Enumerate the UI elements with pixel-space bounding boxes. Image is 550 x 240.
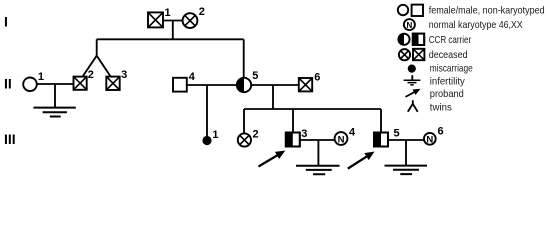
svg-text:III: III — [4, 131, 16, 147]
svg-text:3: 3 — [301, 128, 307, 140]
svg-text:N: N — [338, 134, 345, 145]
svg-text:N: N — [407, 21, 413, 30]
svg-text:5: 5 — [394, 128, 400, 140]
svg-text:2: 2 — [199, 6, 205, 18]
svg-text:twins: twins — [430, 102, 452, 114]
svg-text:4: 4 — [349, 126, 356, 138]
svg-text:II: II — [4, 76, 12, 92]
svg-text:deceased: deceased — [429, 49, 468, 61]
svg-text:1: 1 — [38, 71, 44, 83]
svg-text:1: 1 — [212, 129, 218, 141]
svg-text:2: 2 — [88, 69, 94, 81]
svg-text:1: 1 — [165, 7, 171, 19]
svg-text:female/male, non-karyotyped: female/male, non-karyotyped — [429, 5, 545, 17]
svg-text:3: 3 — [121, 69, 127, 81]
svg-text:CCR carrier: CCR carrier — [429, 34, 472, 46]
svg-text:4: 4 — [189, 71, 196, 83]
svg-text:6: 6 — [438, 126, 444, 138]
svg-text:6: 6 — [314, 72, 320, 84]
svg-text:normal karyotype 46,XX: normal karyotype 46,XX — [429, 19, 523, 31]
svg-text:N: N — [426, 134, 433, 145]
svg-text:2: 2 — [253, 129, 259, 141]
svg-text:miscarriage: miscarriage — [430, 63, 473, 75]
svg-text:5: 5 — [252, 70, 258, 82]
svg-text:proband: proband — [430, 88, 464, 100]
svg-text:infertility: infertility — [430, 76, 466, 88]
svg-text:I: I — [4, 14, 8, 30]
